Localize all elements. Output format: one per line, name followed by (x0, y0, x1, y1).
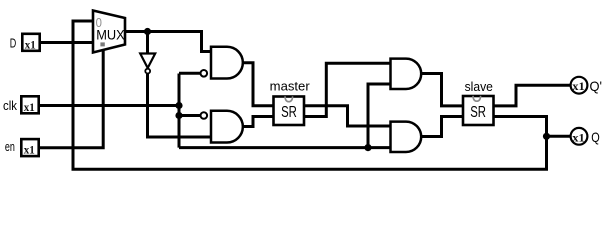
latch U3 appearance notch (285, 96, 293, 101)
svg-text:Q: Q (591, 129, 600, 145)
wire clk to G2 inverted input (179, 114, 201, 117)
svg-text:D: D (10, 37, 17, 51)
wire gate G3 output to slave SR S input (422, 74, 463, 106)
gate G1 lower input inversion bubble (201, 70, 208, 77)
svg-text:MUX: MUX (96, 26, 125, 42)
svg-text:x1: x1 (25, 37, 36, 51)
latch U3 master SR box (270, 79, 311, 125)
svg-text:clk: clk (3, 99, 18, 113)
pin en input box (5, 139, 39, 157)
gate G1 AND body (201, 47, 243, 79)
svg-text:x1: x1 (24, 143, 35, 157)
svg-text:x1: x1 (572, 130, 585, 144)
pin Q output circle (571, 128, 600, 145)
wire Q feedback: Q node down, bottom run, up left side, into MUX in0 (73, 21, 547, 169)
pin D input box (10, 34, 40, 52)
svg-text:SR: SR (470, 104, 486, 121)
gate G2 upper input inversion bubble (201, 112, 208, 119)
wire clk branch up to gate G3 lower input (368, 84, 391, 148)
gate G2 AND body (201, 111, 243, 143)
mux select pin marker (100, 42, 104, 46)
wire clk input to junction column (40, 104, 179, 107)
wire clk to G1 inverted input (179, 72, 201, 75)
pin Q' output circle (571, 77, 602, 94)
multiplexer U1 body (93, 11, 125, 53)
node MUX-out / inverter tee (144, 28, 151, 35)
wire clk vertical leg (178, 74, 181, 148)
svg-text:en: en (5, 140, 15, 154)
svg-text:x1: x1 (572, 79, 585, 93)
svg-text:slave: slave (465, 79, 493, 94)
wire en input to MUX select (40, 46, 103, 148)
wire MUX output branch down to inverter (146, 32, 149, 55)
node Q / feedback tee (543, 133, 550, 140)
wire slave SR top output to Q' pin (494, 85, 570, 106)
wire master SR top output to gate G4 upper input (305, 106, 391, 126)
pin clk input box (3, 96, 39, 114)
wire gate G2 output to master SR R input (243, 117, 273, 127)
svg-text:x1: x1 (24, 100, 35, 114)
svg-text:SR: SR (281, 104, 297, 121)
wire clk bottom run to gate G4 lower input (179, 146, 391, 149)
wire MUX output to gate G1 top input (125, 32, 211, 52)
gate G4 AND (391, 122, 422, 152)
node clk / G3 branch (364, 144, 371, 151)
latch U4 slave SR box (463, 79, 494, 125)
wire D input to MUX in1 (40, 41, 93, 44)
node clk / G1 branch (175, 102, 182, 109)
svg-text:master: master (270, 79, 311, 94)
latch U4 appearance notch (473, 96, 481, 101)
wire inverter output down and right to gate G2 lower input (148, 74, 212, 137)
inverter U2 triangle (140, 54, 155, 74)
wire master SR bottom output to gate G3 upper input (305, 63, 391, 116)
svg-text:Q': Q' (590, 78, 603, 94)
wire slave SR bottom output to Q node (494, 117, 570, 137)
wire gate G4 output to slave SR R input (422, 117, 463, 137)
inverter U2 output bubble (145, 69, 150, 74)
gate G3 AND (391, 59, 422, 89)
node clk / G2 branch (175, 112, 182, 119)
wire gate G1 output to master SR S input (243, 63, 273, 106)
